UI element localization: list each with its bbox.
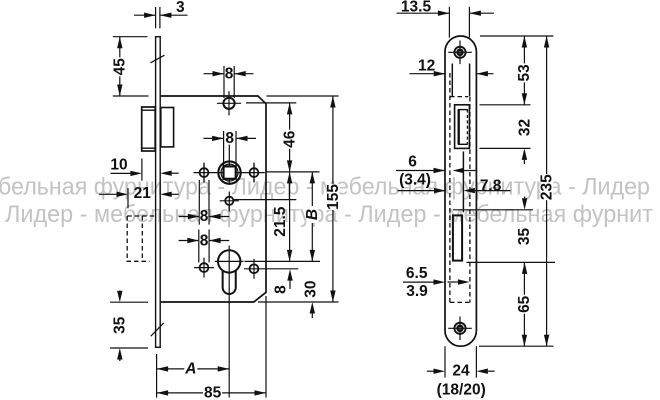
svg-text:21.5: 21.5: [272, 206, 289, 237]
svg-text:30: 30: [302, 280, 319, 297]
svg-text:46: 46: [282, 130, 299, 148]
svg-text:35: 35: [516, 228, 533, 246]
svg-text:6: 6: [408, 154, 417, 171]
svg-text:85: 85: [204, 384, 222, 400]
svg-text:32: 32: [516, 119, 533, 136]
svg-text:B: B: [304, 209, 321, 220]
svg-text:8: 8: [273, 285, 290, 294]
svg-text:35: 35: [111, 316, 128, 334]
svg-text:7.8: 7.8: [480, 177, 502, 194]
svg-text:13.5: 13.5: [401, 0, 432, 16]
svg-text:3.9: 3.9: [406, 283, 428, 300]
svg-text:21: 21: [134, 185, 152, 202]
svg-text:(3.4): (3.4): [399, 172, 431, 189]
svg-text:65: 65: [516, 295, 533, 313]
svg-text:24: 24: [452, 363, 470, 380]
svg-text:A: A: [184, 361, 196, 378]
svg-text:45: 45: [111, 58, 128, 76]
svg-text:53: 53: [516, 64, 533, 82]
svg-text:10: 10: [110, 157, 127, 174]
svg-text:12: 12: [418, 58, 435, 75]
svg-text:8: 8: [200, 208, 209, 225]
svg-text:235: 235: [539, 174, 556, 200]
svg-text:8: 8: [200, 232, 209, 249]
svg-text:3: 3: [176, 0, 185, 16]
svg-text:(18/20): (18/20): [437, 382, 486, 399]
svg-text:155: 155: [325, 184, 342, 210]
svg-text:6.5: 6.5: [406, 265, 428, 282]
svg-text:8: 8: [225, 66, 234, 83]
svg-text:8: 8: [225, 130, 234, 147]
